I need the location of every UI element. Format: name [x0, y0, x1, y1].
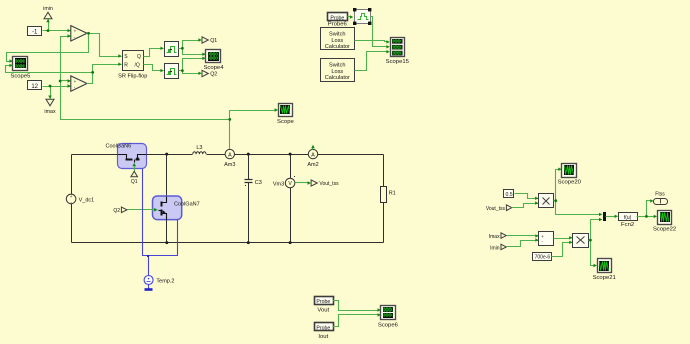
svg-text:Probe: Probe — [316, 326, 330, 332]
svg-text:Q: Q — [137, 54, 141, 60]
capacitor C3 — [245, 180, 262, 187]
svg-text:Iout: Iout — [318, 334, 328, 340]
wire: M2 output to mux input 2 and Scope21 — [589, 218, 603, 267]
svg-text:Fcn2: Fcn2 — [621, 222, 634, 228]
wire: M1 output to Scope20 and mux input 1 — [554, 168, 603, 217]
svg-text:Calculator: Calculator — [325, 75, 350, 81]
svg-text:V: V — [288, 181, 292, 187]
wire: Vm3 branch top — [290, 155, 292, 179]
svg-text:Q1: Q1 — [131, 179, 138, 185]
wire: left rail bottom — [71, 204, 73, 243]
svg-text:CoolGaN6: CoolGaN6 — [106, 143, 132, 149]
scope Scope21 — [593, 259, 616, 282]
wire: thermal net (blue) CoolGaN6 to Temp.2 — [143, 169, 178, 276]
transistor CoolGaN7 (low side) — [153, 196, 200, 220]
wire: Iout probe to Scope6 input 2 — [333, 313, 381, 326]
wire: bottom rail — [72, 242, 384, 244]
tag Q1 (from, gate drive) — [131, 171, 138, 185]
wire: Q1 gate tag to CoolGaN6 — [132, 163, 136, 176]
mux MX1 — [603, 212, 606, 221]
wire: Vout probe to Scope6 input 1 — [333, 301, 381, 312]
wire: comparator U2 output to SR flip-flop R input, branch to Scope5 input 2 — [6, 62, 122, 83]
probe Iout — [315, 323, 334, 340]
svg-text:A: A — [311, 152, 315, 158]
svg-text:/Q: /Q — [135, 62, 140, 68]
wire: pulse1 output to Q1 tag and Scope4 input 1 — [179, 38, 206, 56]
ground: thermal ground under Temp.2 — [145, 285, 153, 290]
tag Q2 (goto) — [202, 70, 217, 77]
tag Ftss (oval goto) — [654, 192, 668, 205]
wire: C3 branch bottom — [248, 183, 250, 243]
svg-text:Ftss: Ftss — [655, 192, 665, 198]
scope Scope20 — [558, 164, 582, 186]
scope Scope6 — [378, 306, 399, 329]
tag Imax (from) — [489, 233, 506, 240]
svg-text:imin: imin — [43, 6, 53, 12]
svg-text:Am2: Am2 — [307, 162, 318, 168]
resistor R1 — [381, 187, 396, 203]
inductor L3 — [193, 145, 206, 154]
svg-text:Loss: Loss — [331, 38, 343, 44]
wire: Q2 gate tag to CoolGaN7 — [128, 208, 158, 212]
wire: Am3 to Am2 — [235, 154, 309, 156]
tag Vout_tss (near Vm3) — [311, 180, 339, 187]
wire: comparator U1 output branch to Scope5 input 1 — [7, 32, 90, 63]
svg-text:Am3: Am3 — [224, 162, 235, 168]
wire: C3 branch top — [248, 155, 250, 180]
scope Scope4 — [204, 50, 225, 72]
probe Probe6 — [328, 13, 348, 28]
constant block 12 — [28, 81, 42, 91]
svg-text:Vout_tss: Vout_tss — [319, 181, 339, 187]
svg-text:CoolGaN7: CoolGaN7 — [174, 201, 200, 207]
wire: Vm3 branch bottom — [290, 188, 292, 243]
svg-text:R1: R1 — [389, 190, 396, 196]
wire: top rail left segment — [72, 154, 118, 156]
comparator U1 (top) — [71, 26, 87, 41]
svg-text:0.5: 0.5 — [505, 192, 512, 198]
wire: Am2 measurement stub arrow — [311, 145, 315, 150]
svg-text:Scope4: Scope4 — [204, 65, 225, 71]
constant block 700e-6 — [533, 253, 552, 261]
wire: Vm3 output to Vout_tss tag — [296, 181, 311, 184]
wire: right rail bottom — [383, 203, 385, 243]
wire: switch node to CoolGaN7 drain — [166, 155, 168, 197]
wire: mux output to Fcn2 — [606, 215, 619, 218]
svg-text:Q2: Q2 — [113, 208, 120, 214]
pulse block 1 — [165, 42, 179, 57]
tag Imin (from) — [490, 244, 506, 251]
tag Q1 (goto) — [202, 37, 217, 44]
wire: right rail top — [383, 155, 385, 187]
svg-text:Q2: Q2 — [210, 72, 217, 78]
wire: Vout_tss tag to multiplier M1 input 2 — [512, 201, 539, 207]
node: C3 junction bottom — [247, 241, 250, 244]
function block Fcn2 — [619, 213, 638, 229]
svg-text:Scope15: Scope15 — [386, 59, 410, 65]
multiplier M2 — [573, 234, 589, 248]
svg-text:Scope20: Scope20 — [558, 180, 582, 186]
constant block -1 — [28, 27, 42, 36]
wire: comparator U1 output to SR flip-flop S input — [87, 34, 122, 58]
wire: -1 constant to comparator U1 plus input, with branch to imin tag — [43, 19, 71, 33]
svg-text:Q1: Q1 — [210, 38, 217, 44]
svg-text:Probe: Probe — [330, 15, 344, 21]
svg-text:-1: -1 — [32, 29, 38, 35]
node: CoolGaN7 source junction on bottom rail — [165, 241, 168, 244]
tag Vout_tss (from) — [486, 205, 512, 212]
node: Vm3 junction top — [289, 153, 292, 156]
SR flip-flop U3 — [118, 51, 147, 80]
svg-text:Probe6: Probe6 — [328, 22, 348, 28]
svg-text:C3: C3 — [255, 180, 262, 186]
svg-text:imax: imax — [44, 109, 56, 115]
voltage source V_dc1 — [66, 194, 94, 204]
svg-text:Scope22: Scope22 — [653, 226, 676, 232]
thermometer Temp.2 — [144, 276, 174, 285]
ammeter Am3 — [224, 149, 235, 167]
wire: SR /Q output to pulse block 2 — [144, 65, 164, 73]
svg-text:Switch: Switch — [329, 31, 345, 37]
svg-text:Imax: Imax — [489, 234, 500, 240]
node: C3 junction top — [247, 153, 250, 156]
scope Scope5 — [10, 57, 31, 80]
constant block 0.5 — [504, 190, 514, 199]
wire: left rail top — [71, 155, 73, 195]
svg-text:SR Flip-flop: SR Flip-flop — [118, 73, 147, 79]
wire: subtractor output to multiplier M2 input 1 — [554, 236, 573, 239]
pulse block 2 — [165, 64, 179, 79]
svg-text:Vout: Vout — [317, 307, 329, 313]
svg-text:f(u): f(u) — [624, 215, 632, 221]
wire: 700e-6 to multiplier M2 input 2 — [552, 241, 573, 257]
node: Vm3 junction bottom — [289, 241, 292, 244]
svg-text:Scope6: Scope6 — [378, 323, 399, 329]
svg-text:700e-6: 700e-6 — [535, 255, 551, 261]
switch loss calculator 2 — [321, 59, 355, 82]
multiplier M1 — [539, 194, 554, 208]
svg-text:Scope5: Scope5 — [10, 74, 31, 80]
scope Scope22 — [653, 211, 676, 233]
switch loss calculator 1 — [321, 28, 355, 51]
svg-text:Scope: Scope — [277, 119, 294, 125]
svg-text:Loss: Loss — [331, 69, 343, 75]
voltmeter Vm3 — [273, 176, 295, 188]
wire: 0.5 to multiplier M1 input 1 — [515, 194, 539, 201]
wire: L3 to Am3 — [207, 154, 226, 156]
svg-text:A: A — [228, 152, 232, 158]
svg-text:Calculator: Calculator — [325, 44, 350, 50]
tag imax — [44, 99, 56, 115]
tag Q2 (from, gate drive) — [113, 207, 127, 214]
svg-text:+: + — [74, 29, 77, 34]
wire: top rail CoolGaN6 to L3 — [147, 154, 193, 156]
wire: averaging block to Scope15 input 2 — [371, 17, 390, 49]
svg-text:Vout_tss: Vout_tss — [486, 206, 506, 212]
svg-text:Imin: Imin — [490, 245, 500, 251]
wire: SLC1 to Scope15 input 1 — [355, 40, 390, 43]
svg-text:R: R — [124, 62, 128, 68]
transistor CoolGaN6 (high side) — [106, 143, 147, 168]
comparator U2 (bottom) — [71, 76, 87, 91]
ammeter Am2 — [307, 149, 318, 167]
svg-text:V_dc1: V_dc1 — [79, 197, 95, 203]
wire: SR Q output to pulse block 1 — [144, 47, 164, 57]
wire: Probe6 to averaging block — [348, 15, 354, 18]
wire: 12 constant to comparator U2 minus input, with branch to imax tag — [43, 84, 71, 99]
svg-text:L3: L3 — [196, 145, 202, 151]
svg-text:Temp.2: Temp.2 — [156, 279, 174, 285]
wire: Imax to subtractor input 1 — [507, 234, 539, 237]
svg-text:Scope21: Scope21 — [593, 275, 616, 281]
scope Scope15 (3 inputs) — [386, 38, 410, 65]
probe Vout — [315, 297, 334, 314]
svg-text:+: + — [74, 79, 77, 84]
wire: CoolGaN7 source to bottom rail — [166, 220, 168, 243]
wire: Imin to subtractor input 2 — [507, 238, 539, 246]
tag imin — [43, 6, 53, 19]
svg-text:Probe: Probe — [316, 299, 330, 305]
averaging block (selected, with corner handles) — [353, 8, 371, 25]
subtractor S1 — [539, 232, 554, 246]
scope Scope — [277, 104, 294, 126]
wire: top rail right segment — [318, 154, 384, 156]
wire: Fcn2 output to Ftss tag and Scope22 — [637, 199, 658, 218]
wire: current feedback from Am3 to comparators (vertical x=60) — [59, 34, 230, 119]
wire: SLC2 to Scope15 input 3 — [355, 50, 390, 71]
wire: pulse2 output to Scope4 input 2 and Q2 tag — [179, 57, 206, 75]
wire: Am3 measurement to Scope and feedback line — [228, 108, 278, 149]
svg-text:Switch: Switch — [329, 62, 345, 68]
node: switch node junction on top rail — [165, 153, 168, 156]
svg-text:Vm3: Vm3 — [273, 181, 284, 187]
svg-text:12: 12 — [31, 84, 38, 90]
